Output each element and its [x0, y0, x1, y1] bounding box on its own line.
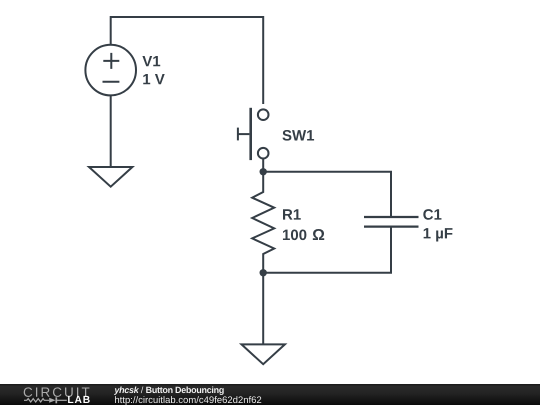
node A junction dot	[260, 168, 267, 175]
label V1	[142, 56, 160, 66]
wire: node A across to C1 top plate	[263, 172, 391, 217]
capacitor C1 bottom plate	[364, 226, 419, 228]
logo wordmark CIRCUIT	[24, 387, 90, 397]
logo diode triangle	[49, 398, 55, 403]
node B junction dot	[260, 269, 267, 276]
logo diode bar	[55, 397, 57, 403]
label SW1	[282, 130, 314, 141]
value 1 V	[143, 74, 164, 84]
ground (below V1)	[89, 167, 132, 187]
credit line 2: circuitlab url	[115, 396, 261, 405]
wire: V1 minus terminal down to ground	[110, 95, 112, 167]
voltage source V1	[85, 45, 136, 96]
wire: SW1 bottom terminal down to node A	[262, 159, 264, 172]
logo LAB	[68, 396, 90, 403]
switch SW1 (pushbutton)	[238, 108, 269, 160]
ground (bottom)	[242, 344, 285, 364]
wire: node B down to ground	[262, 273, 264, 345]
label C1	[423, 209, 441, 220]
label R1	[283, 209, 301, 219]
resistor R1	[252, 172, 274, 273]
value 100 Ohm	[283, 229, 324, 240]
logo diode wire	[56, 399, 67, 401]
credit line 1: yhcsk / Button Debouncing	[114, 386, 224, 394]
value 1 uF	[424, 228, 453, 241]
logo resistor zigzag wire	[24, 399, 49, 402]
wire: C1 bottom plate down and across to node B	[263, 227, 391, 273]
wire: V1 plus terminal up, across top, down to SW1 top terminal	[111, 17, 264, 104]
capacitor C1 top plate	[364, 216, 419, 218]
footer bar	[0, 384, 540, 405]
